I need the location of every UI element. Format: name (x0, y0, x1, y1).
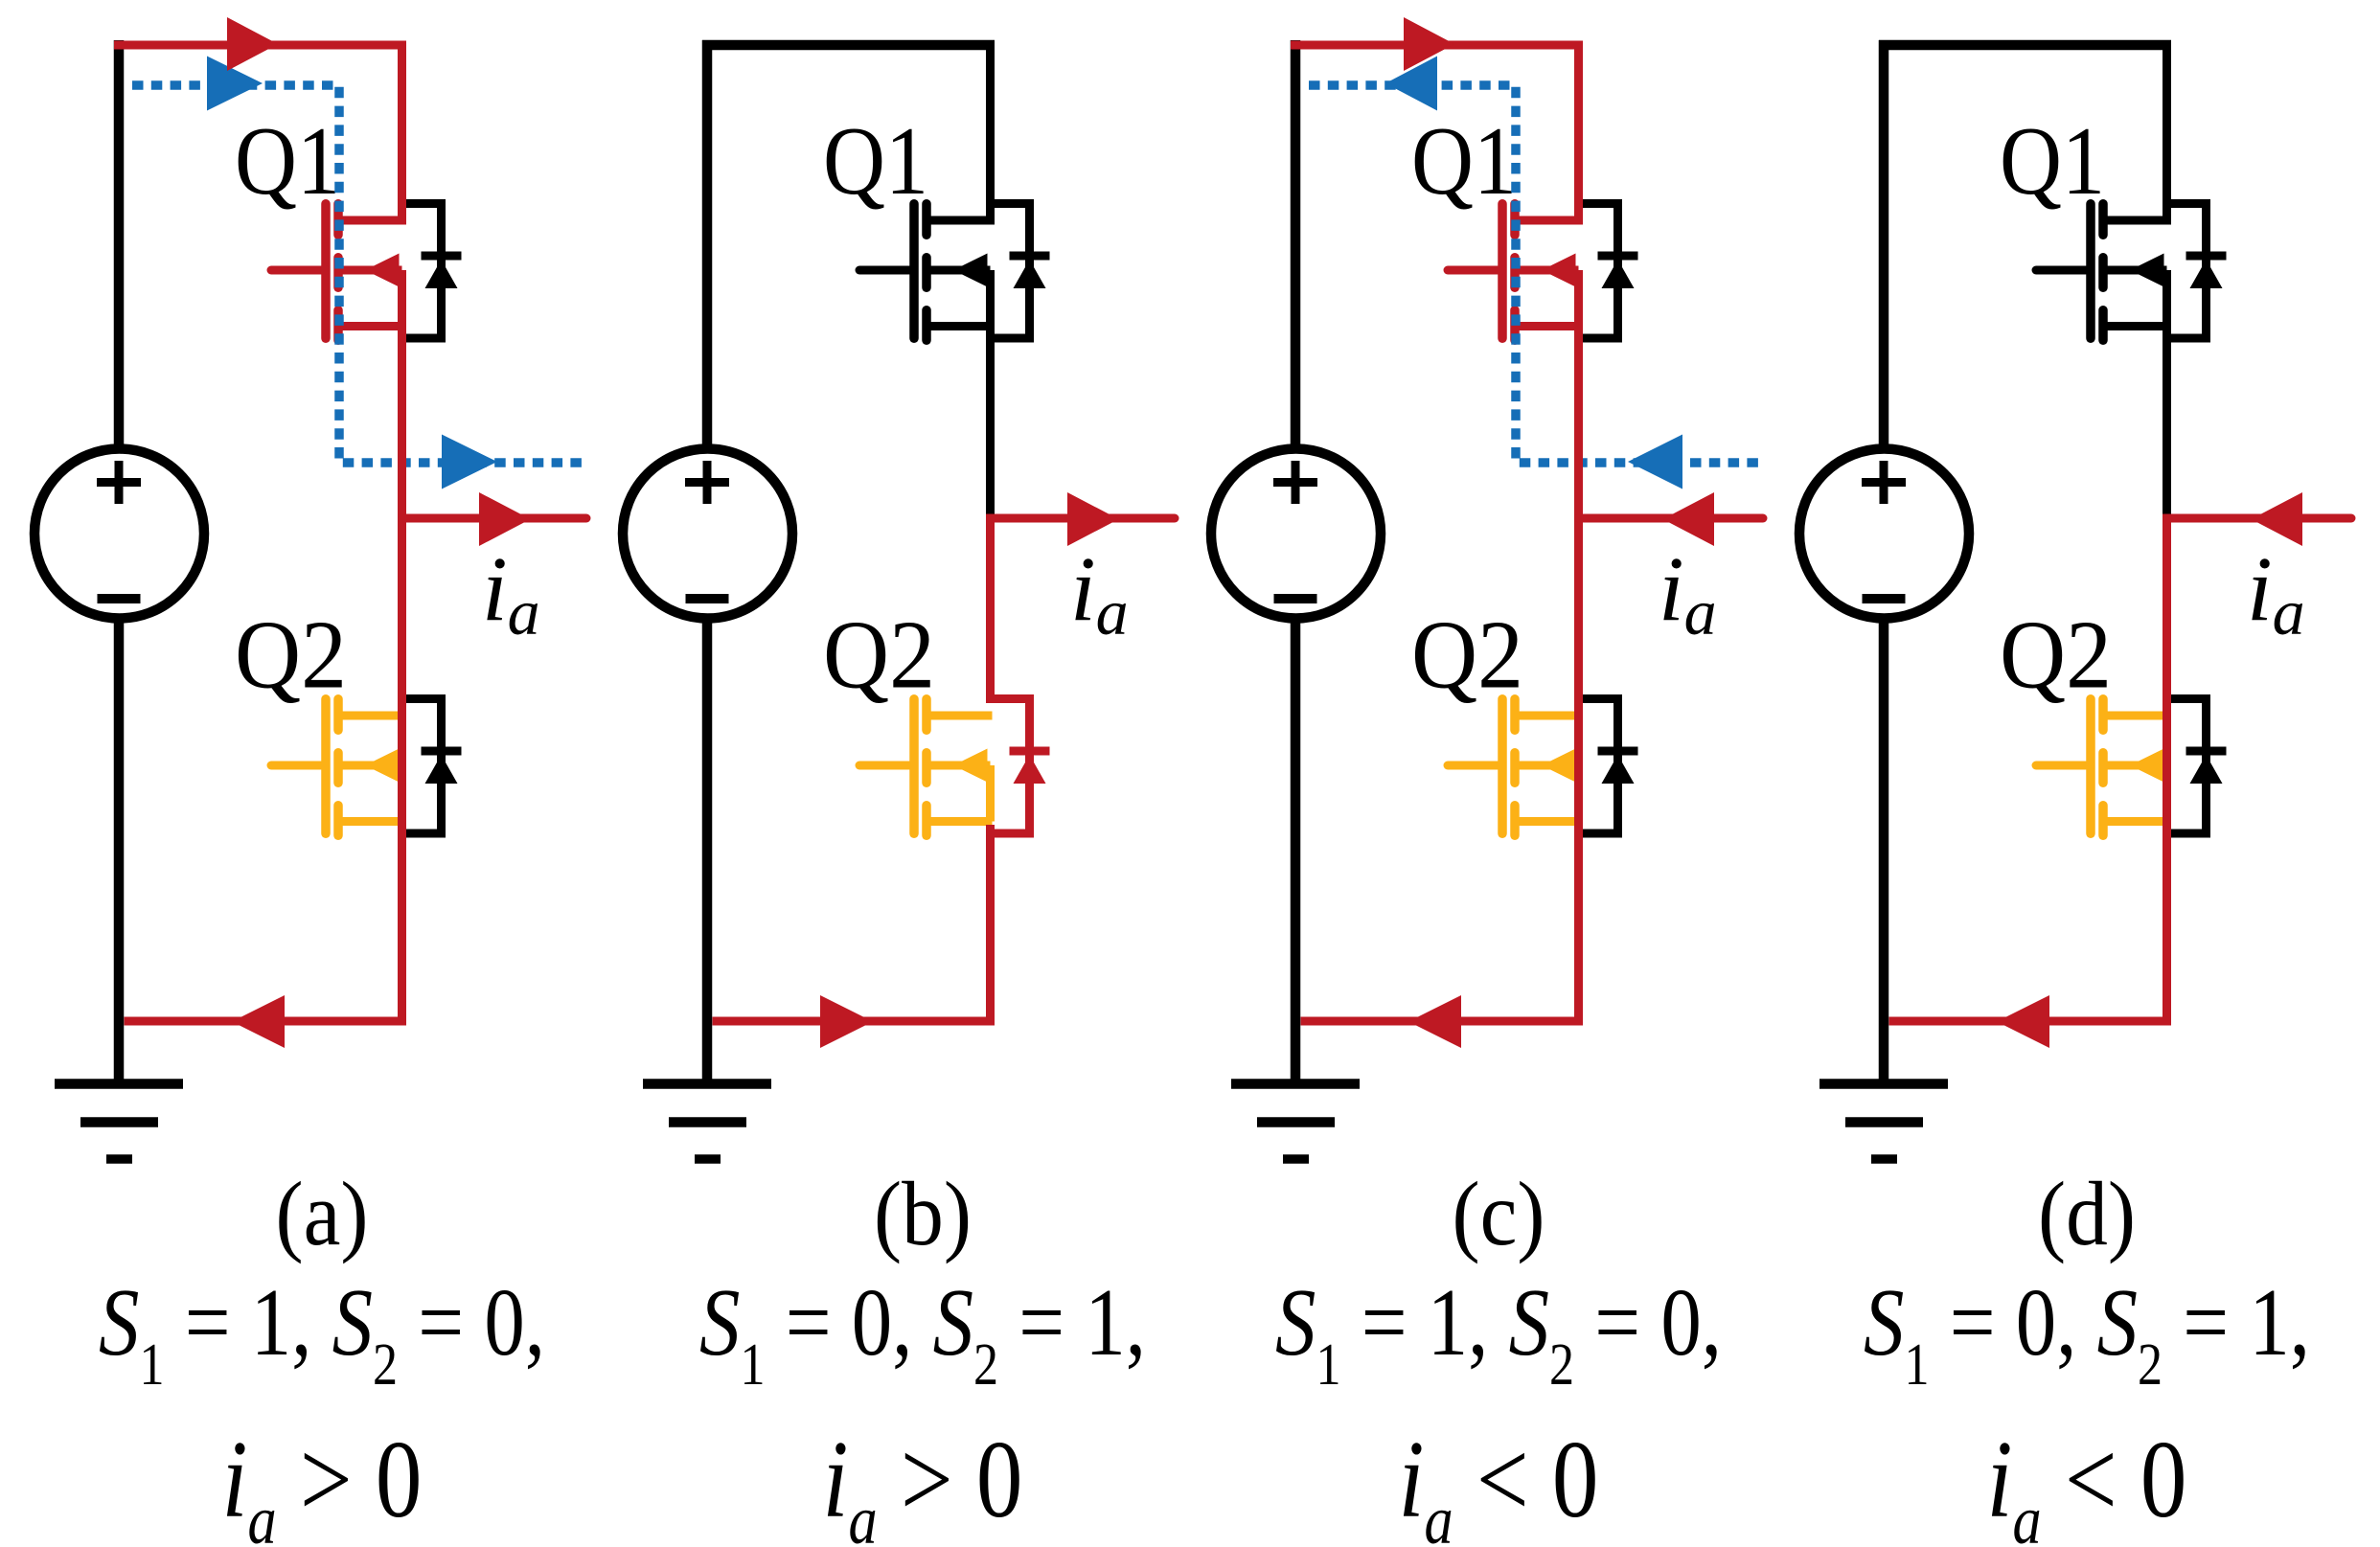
wire: top rail (702, 40, 995, 51)
ground (643, 1084, 771, 1160)
wire: Q1 source to output node (1574, 322, 1583, 523)
svg-text:Q2: Q2 (823, 602, 935, 710)
caption (b) (699, 1164, 1146, 1547)
transistor Q1 MOSFET symbol (859, 204, 993, 341)
wire: top rail (1879, 40, 2171, 51)
wire: output node to bottom rail (1574, 514, 1583, 1026)
body diode D2 (991, 699, 1050, 834)
ground (55, 1084, 183, 1160)
wire: DC source column (1879, 40, 1889, 1087)
arrow: blue top left (1385, 57, 1437, 111)
wire: output node to bottom rail (2163, 514, 2171, 1026)
body diode D1 (2167, 204, 2227, 339)
dashed path: body-diode/channel reverse current (blue) (1309, 57, 1761, 489)
svg-text:Q1: Q1 (823, 107, 928, 216)
body diode D2 (402, 699, 462, 834)
wire: DC source column (1291, 40, 1301, 1087)
ground (1819, 1084, 1948, 1160)
arrow: source current into Q1 (red) (1404, 17, 1454, 71)
voltage source (34, 449, 204, 619)
wire: top rail (1291, 41, 1583, 50)
caption (c) (1275, 1164, 1722, 1547)
arrow: bottom rail current (red) (1408, 995, 1461, 1048)
svg-text:Q1: Q1 (2000, 107, 2105, 216)
arrow: ia direction (red) (1067, 492, 1119, 546)
wire: drain bus upper (1574, 41, 1583, 225)
arrow: blue mid left (1628, 435, 1682, 489)
voltage source (1799, 449, 1969, 619)
arrow: blue top right (207, 57, 263, 111)
wire: Q1 source to output node (398, 322, 406, 523)
svg-text:(a): (a) (276, 1164, 369, 1264)
svg-text:Q2: Q2 (1411, 602, 1523, 710)
wire: DC source column (702, 40, 713, 1087)
wire: output ia line (991, 514, 1176, 523)
wire: bottom rail (713, 1017, 995, 1026)
svg-text:Q1: Q1 (235, 107, 340, 216)
transistor Q2 MOSFET symbol (271, 699, 404, 836)
wire: output node to bottom rail (398, 514, 406, 1026)
body diode D2 (2167, 699, 2227, 834)
arrow: ia direction (red) (2252, 492, 2303, 546)
body diode D1 (1579, 204, 1638, 339)
svg-text:(d): (d) (2038, 1164, 2136, 1264)
arrow: bottom rail current (red) (820, 995, 873, 1048)
arrow: source current into Q1 (red) (227, 17, 278, 71)
body diode D1 (991, 204, 1050, 339)
arrow: ia direction (red) (1663, 492, 1715, 546)
svg-text:Q1: Q1 (1411, 107, 1517, 216)
wire: bottom rail (1301, 1017, 1584, 1026)
wire: Q1 source to output node (2163, 322, 2171, 523)
wire: output ia line (2167, 514, 2352, 523)
transistor Q2 MOSFET symbol (2036, 699, 2169, 836)
transistor Q2 MOSFET symbol (1448, 699, 1581, 836)
wire: output ia line (1579, 514, 1764, 523)
svg-text:Q2: Q2 (2000, 602, 2112, 710)
svg-text:Q2: Q2 (235, 602, 347, 710)
transistor Q1 MOSFET symbol (2036, 204, 2169, 341)
transistor Q1 MOSFET symbol (1448, 204, 1581, 341)
arrow: ia direction (red) (479, 492, 531, 546)
svg-text:(b): (b) (874, 1164, 972, 1264)
caption (a) (99, 1164, 545, 1547)
wire: output node to Q2 diode loop (986, 514, 995, 704)
voltage source (623, 449, 792, 619)
voltage source (1211, 449, 1381, 619)
arrow: bottom rail current (red) (1997, 995, 2049, 1048)
wire: top rail (114, 41, 406, 50)
caption (d) (1864, 1164, 2310, 1547)
wire: Q2 diode loop to bottom rail (986, 825, 995, 1026)
svg-text:(c): (c) (1453, 1164, 1545, 1264)
arrow: blue mid right (442, 435, 497, 489)
wire: drain bus upper (986, 41, 995, 225)
body diode D1 (402, 204, 462, 339)
arrow: bottom rail current (red) (232, 995, 285, 1048)
dashed path: body-diode/channel reverse current (blue) (132, 57, 584, 489)
wire: bottom rail (1889, 1017, 2172, 1026)
ground (1231, 1084, 1360, 1160)
wire: drain bus upper (2163, 41, 2171, 225)
transistor Q2 MOSFET symbol (859, 699, 993, 836)
wire: drain bus upper (398, 41, 406, 225)
wire: bottom rail (125, 1017, 407, 1026)
transistor Q1 MOSFET symbol (271, 204, 404, 341)
wire: Q1 source to output node (986, 322, 995, 523)
wire: output ia line (402, 514, 587, 523)
body diode D2 (1579, 699, 1638, 834)
wire: DC source column (114, 40, 125, 1087)
